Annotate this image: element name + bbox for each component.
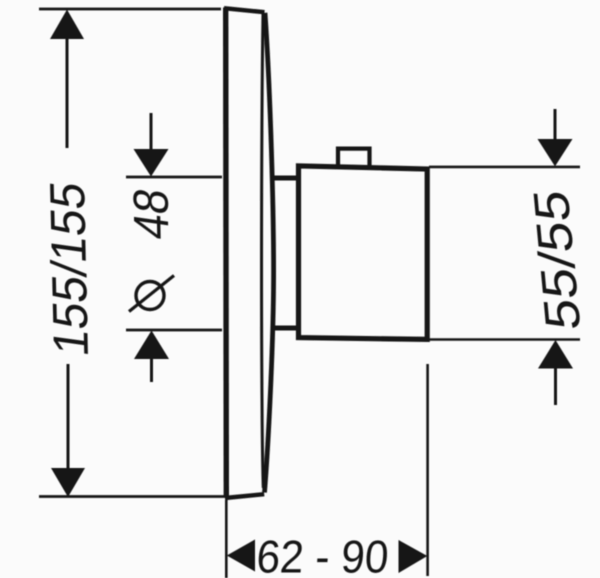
dim 155 down arrow head bbox=[51, 468, 85, 497]
sleeve bottom line bbox=[272, 326, 298, 331]
dim 55 top reference line bbox=[429, 166, 580, 169]
handle top tab bbox=[338, 149, 370, 167]
dim 48 down arrow head bbox=[134, 149, 169, 177]
dim 62-90 right arrow head bbox=[399, 540, 428, 573]
dim 62-90 left arrow head bbox=[227, 540, 255, 572]
diameter symbol circle bbox=[136, 282, 164, 310]
dim 55 down arrow stem bbox=[554, 109, 557, 140]
diameter symbol slash bbox=[129, 276, 174, 312]
sleeve top line bbox=[271, 176, 298, 181]
svg-text:62 - 90: 62 - 90 bbox=[255, 532, 390, 578]
svg-text:48: 48 bbox=[124, 185, 180, 242]
svg-text:155/155: 155/155 bbox=[41, 179, 100, 360]
dim 62-90 right extension line bbox=[426, 364, 429, 576]
escutcheon plate front face inner line bbox=[262, 14, 264, 489]
dim 155 up arrow head bbox=[50, 10, 84, 40]
dim 155 up arrow stem bbox=[66, 38, 69, 148]
dim 55 up arrow head bbox=[538, 340, 573, 369]
dim 55 bottom reference line bbox=[429, 338, 580, 341]
dim 155 down arrow stem bbox=[67, 364, 70, 470]
dim 48 up arrow head bbox=[134, 331, 169, 360]
dim 55 down arrow head bbox=[538, 139, 573, 166]
escutcheon plate rim outer curve bbox=[265, 13, 274, 493]
escutcheon plate top edge bbox=[224, 8, 265, 12]
dim 55 up arrow stem bbox=[554, 368, 557, 405]
dim 48 up arrow stem bbox=[150, 358, 153, 382]
dim 48 down arrow stem bbox=[150, 113, 153, 151]
dim 48 bottom reference line bbox=[126, 329, 222, 332]
escutcheon plate left edge bbox=[223, 8, 229, 497]
bottom boundary line bbox=[39, 495, 225, 498]
dim 62-90 left extension line bbox=[225, 500, 228, 578]
handle body outline bbox=[299, 166, 428, 340]
dim 48 top reference line bbox=[126, 176, 222, 179]
top boundary line bbox=[39, 8, 221, 11]
escutcheon plate bottom edge bbox=[225, 494, 264, 498]
